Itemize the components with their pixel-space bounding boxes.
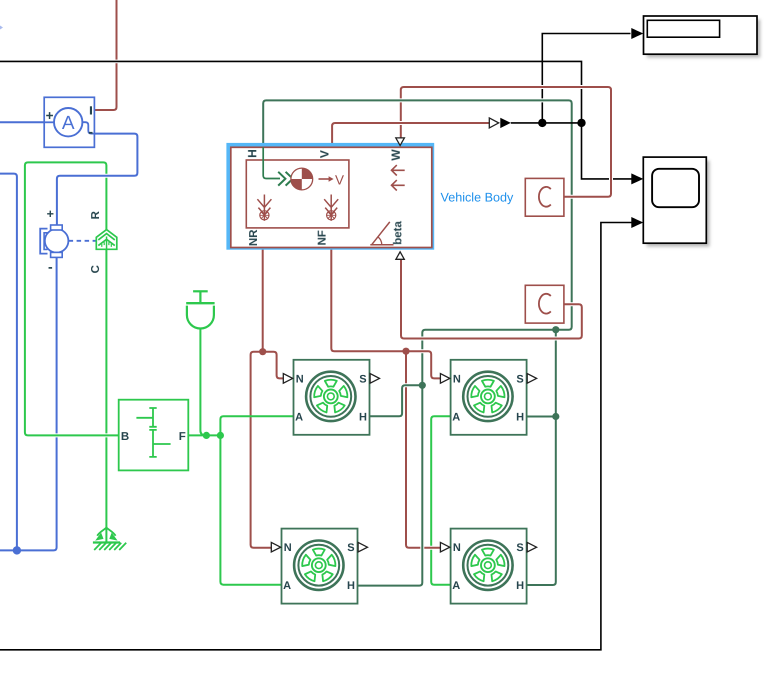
svg-text:H: H [516,580,524,592]
svg-text:beta: beta [392,221,404,245]
svg-text:A: A [452,411,460,423]
svg-text:NR: NR [248,229,260,246]
block: current sensor (ammeter) [44,97,94,147]
wire: black signal under-layer verticals (display/scope taps) [0,61,632,178]
svg-text:+: + [46,108,54,123]
svg-text:Vehicle Body: Vehicle Body [440,190,514,204]
block: scope [647,161,710,247]
svg-text:N: N [453,373,461,385]
junction: blue node [13,546,21,554]
svg-text:V: V [335,172,344,187]
block: display [647,20,761,58]
wire: lime C-port to rotational ground [105,249,107,542]
port arrow: front-left S output [527,374,536,384]
svg-text:N: N [296,373,304,385]
svg-text:S: S [516,542,523,554]
wire: maroon vehicle NF-port to right wheels N [331,248,440,379]
port arrow: rear-left S output [370,374,379,384]
wire: dark green right wheels H branch [527,330,556,585]
svg-text:A: A [452,580,460,592]
icon: vehicle body internals [263,147,280,178]
wire: dark green vehicle H-port net [263,100,572,585]
port arrow: W input [396,138,405,146]
port arrow: rear-left N input [283,374,292,384]
wire: lime inertia stem to gearbox F node [200,328,207,435]
svg-text:R: R [90,210,102,219]
svg-text:F: F [179,431,186,443]
port arrow: front-left N input [440,374,449,384]
port arrow: front-right N input [440,542,449,552]
port arrow: front-right S output [527,542,536,552]
svg-text:H: H [245,149,259,158]
block: vehicle body (selected) [229,145,432,247]
svg-text:-: - [48,258,53,274]
svg-text:A: A [62,113,75,134]
junction: dark green H nodes (right column) [552,326,559,333]
svg-text:V: V [318,150,332,158]
wire: blue source to ammeter-plus [0,121,44,123]
wire: blue battery branch wire (left edge) [0,174,17,551]
svg-text:B: B [121,431,129,443]
svg-text:N: N [284,542,292,554]
ground: rotational reference [93,541,120,543]
block: DC motor [40,229,47,254]
wire: lime gearbox F-port to wheel axles (rear pair) [188,434,220,436]
block: PS-Simulink converter C2 [525,285,564,323]
partial block at canvas left edge [0,26,3,30]
junction: maroon NR node [259,348,266,355]
svg-text:H: H [347,580,355,592]
wire: maroon C2 converter to beta port [401,259,582,339]
wire: blue motor-minus return wire [0,258,57,551]
wire: maroon NF branch to BR wheel N (under-layer) [406,351,440,548]
port arrow: rear-right N input [271,542,280,552]
arrow: display input [631,28,643,39]
wire: maroon W headwind net (vertical part) [399,90,403,138]
junction: black signal nodes [538,119,546,127]
block: tire rear-left [294,360,370,435]
wire: maroon vehicle NR-port to left wheels N [261,248,265,352]
junction: lime F node dots [203,432,210,439]
svg-text:S: S [347,542,354,554]
wire: maroon ammeter I-port off-page [94,0,116,110]
svg-text:C: C [90,265,102,273]
svg-text:H: H [516,411,524,423]
block: inertia [193,290,208,292]
svg-text:H: H [359,411,367,423]
svg-text:A: A [283,580,291,592]
port arrow: rear-right S output [358,542,367,552]
block: tire front-left [451,360,527,435]
arrow: scope input 1 [631,173,643,184]
wire: blue dashed motor-shaft link [69,240,96,242]
wire: maroon vehicle V-port to scope tap [332,123,489,148]
wire: lime right wheels axle tie (A to A) [431,416,450,584]
junction: dark green TL-H node [419,382,426,389]
svg-text:+: + [47,207,54,221]
wire: maroon C1 converter to W input [401,87,611,197]
svg-text:W: W [389,149,403,161]
wire: scope input 2 signal (bottom long black wire) [0,223,632,650]
svg-text:N: N [453,542,461,554]
svg-text:NF: NF [316,230,328,245]
svg-text:S: S [516,373,523,385]
wire: lime motor R-port to gearbox B-port [25,162,119,435]
block: tire front-right [451,529,527,604]
junction: maroon NF node [402,348,409,355]
port arrow: beta output [396,252,404,259]
block: tire rear-right [282,529,358,604]
wire: blue ammeter-minus to motor-plus [57,134,137,226]
block: gear box [119,400,189,471]
svg-text:S: S [359,373,366,385]
arrow: dangling PS output + signal source arrows [489,118,498,128]
svg-text:A: A [295,411,303,423]
wire: dark green wheel TL H branch [370,385,423,416]
port element: motor rotational R/C port [96,230,117,250]
wire: black signal to display and scope (over-layer) [511,122,582,124]
block: PS-Simulink converter C1 [525,178,564,216]
